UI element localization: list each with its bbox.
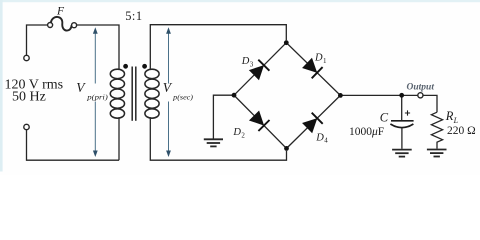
svg-text:C: C <box>380 110 389 124</box>
svg-text:2: 2 <box>241 131 245 139</box>
svg-text:Output: Output <box>407 82 435 92</box>
svg-text:3: 3 <box>250 60 254 68</box>
svg-text:F: F <box>56 5 65 17</box>
svg-text:220 Ω: 220 Ω <box>447 125 476 137</box>
svg-text:L: L <box>453 116 459 125</box>
svg-text:D: D <box>241 56 250 67</box>
svg-text:p(sec): p(sec) <box>172 94 194 102</box>
svg-text:p(pri): p(pri) <box>86 94 108 102</box>
svg-text:1: 1 <box>323 57 327 65</box>
svg-text:D: D <box>314 52 323 63</box>
svg-text:D: D <box>232 127 241 138</box>
svg-text:50 Hz: 50 Hz <box>12 89 46 104</box>
svg-text:R: R <box>445 109 454 123</box>
svg-text:4: 4 <box>324 137 328 145</box>
svg-text:D: D <box>315 132 324 143</box>
svg-text:5:1: 5:1 <box>125 9 142 23</box>
svg-text:1000μF: 1000μF <box>349 126 384 138</box>
